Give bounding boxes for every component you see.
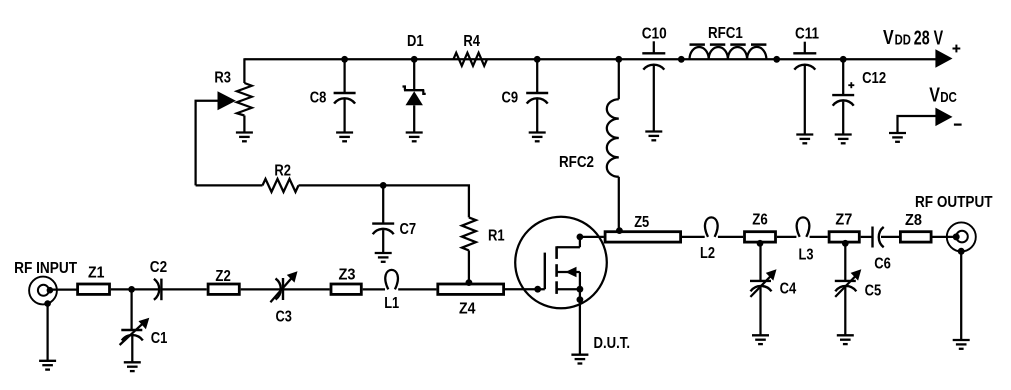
- minus sign VDC: [954, 123, 962, 125]
- ground C1: [124, 362, 141, 371]
- impedance Z5: [605, 232, 681, 242]
- capacitor C8: [334, 59, 356, 132]
- wire Z7 to C6: [861, 236, 873, 238]
- capacitor C10 (feedthrough): [642, 41, 665, 131]
- capacitor C7: [372, 185, 394, 253]
- svg-text:C7: C7: [400, 221, 417, 238]
- transistor D.U.T. MOSFET: [515, 217, 607, 355]
- ground VDC: [889, 133, 906, 142]
- svg-text:C3: C3: [276, 308, 292, 325]
- VDC supply arrow: [935, 108, 952, 127]
- ground C4: [752, 335, 769, 344]
- resistor R1: [462, 217, 476, 282]
- wire C3 to Z3: [283, 288, 330, 290]
- wire R2 to R1 corner: [299, 185, 469, 217]
- node C7 junction: [380, 182, 387, 189]
- svg-text:Z8: Z8: [905, 212, 922, 229]
- capacitor C4 (variable): [750, 243, 777, 335]
- node C9 junction: [534, 56, 541, 63]
- node R1 to Z4: [466, 279, 473, 286]
- wire L2 to Z6: [718, 236, 743, 238]
- svg-text:RF OUTPUT: RF OUTPUT: [915, 194, 993, 211]
- connector RF OUTPUT: [947, 222, 976, 340]
- svg-text:28 V: 28 V: [914, 27, 944, 49]
- svg-text:C11: C11: [795, 25, 819, 42]
- svg-text:L2: L2: [700, 245, 715, 262]
- impedance Z4: [438, 284, 504, 294]
- impedance Z8: [900, 232, 931, 242]
- svg-text:C4: C4: [780, 280, 797, 297]
- inductor RFC1: [690, 45, 767, 60]
- capacitor C2: [154, 279, 162, 301]
- inductor L2: [705, 217, 718, 237]
- node C12 junction: [840, 56, 847, 63]
- diode D1 (zener): [403, 59, 426, 132]
- svg-text:V: V: [883, 27, 894, 49]
- node C1 junction: [128, 286, 135, 293]
- VDD supply arrow: [935, 49, 952, 67]
- svg-text:R1: R1: [488, 227, 505, 244]
- ground C11: [796, 135, 813, 144]
- inductor L3: [797, 217, 810, 237]
- ground RF OUTPUT: [953, 340, 970, 349]
- node RFC2 junction: [615, 56, 622, 63]
- wire C6 to Z8: [881, 236, 899, 238]
- svg-text:Z7: Z7: [835, 211, 852, 228]
- svg-text:RFC2: RFC2: [559, 154, 594, 171]
- ground C7: [375, 253, 392, 262]
- svg-text:RFC1: RFC1: [708, 25, 743, 42]
- resistor R2: [263, 179, 299, 192]
- wire R3 wiper arm: [196, 101, 219, 186]
- capacitor C6: [873, 227, 884, 248]
- svg-text:C9: C9: [502, 90, 519, 107]
- svg-text:C5: C5: [865, 282, 882, 299]
- capacitor C11 (feedthrough): [793, 42, 816, 135]
- resistor R3 (variable): [218, 83, 252, 133]
- svg-text:DC: DC: [940, 89, 957, 106]
- label VDC: [929, 85, 957, 107]
- svg-text:R4: R4: [463, 33, 480, 50]
- svg-text:R3: R3: [214, 69, 231, 86]
- svg-text:Z3: Z3: [339, 266, 356, 283]
- svg-text:Z5: Z5: [634, 214, 649, 231]
- svg-text:C10: C10: [642, 25, 667, 42]
- svg-text:Z4: Z4: [459, 300, 475, 317]
- node C4 junction: [757, 240, 764, 247]
- wire Z5 to L2: [682, 236, 705, 238]
- wire connector to Z1: [50, 288, 77, 290]
- impedance Z1: [78, 284, 110, 294]
- svg-text:L1: L1: [384, 295, 399, 312]
- plus sign VDD: [953, 45, 961, 53]
- ground C10: [645, 132, 662, 141]
- node C8 junction: [341, 56, 348, 63]
- capacitor C9: [526, 59, 548, 132]
- node gate junction: [534, 286, 541, 293]
- capacitor C3 (variable): [270, 271, 297, 302]
- wire drain to Z5: [580, 236, 604, 238]
- ground C5: [837, 335, 854, 344]
- svg-text:C12: C12: [862, 70, 886, 87]
- svg-text:Z6: Z6: [752, 211, 768, 228]
- svg-text:DD: DD: [895, 32, 911, 49]
- ground R3: [236, 133, 253, 142]
- svg-text:L3: L3: [799, 247, 814, 264]
- capacitor C12 (polarized): [832, 59, 854, 134]
- wire L3 to Z7: [810, 236, 828, 238]
- wire top supply rail: [244, 58, 936, 60]
- capacitor C5 (variable): [835, 243, 862, 335]
- ground C9: [529, 133, 546, 142]
- connector RF INPUT: [29, 277, 57, 361]
- svg-text:C8: C8: [310, 89, 327, 106]
- wire Z6 to L3: [777, 236, 797, 238]
- wire R2 row: [196, 184, 263, 186]
- ground C8: [336, 133, 353, 142]
- wire Z3 to L1: [363, 288, 385, 290]
- svg-text:C1: C1: [151, 330, 168, 347]
- node C5 junction: [842, 240, 849, 247]
- capacitor C1 (variable): [120, 289, 150, 362]
- ground RF INPUT: [39, 361, 56, 370]
- svg-text:C2: C2: [150, 259, 167, 276]
- svg-text:V: V: [929, 85, 940, 107]
- ground D.U.T.: [571, 355, 588, 364]
- ground C12: [835, 135, 852, 144]
- node RFC2 to Z5: [616, 227, 623, 234]
- wire Z2 to C3: [241, 288, 281, 290]
- inductor RFC2: [607, 59, 619, 230]
- node RFC1 left: [678, 56, 685, 63]
- ground D1: [406, 133, 423, 142]
- wire Z4 to gate: [505, 288, 545, 290]
- impedance Z7: [829, 232, 859, 242]
- wire L1 to Z4: [398, 288, 436, 290]
- resistor R4: [453, 53, 487, 66]
- impedance Z6: [745, 232, 776, 242]
- node D1 junction: [411, 56, 418, 63]
- impedance Z3: [331, 284, 361, 294]
- wire C2 to Z2: [161, 288, 206, 290]
- svg-text:C6: C6: [874, 256, 891, 273]
- svg-text:D1: D1: [407, 33, 424, 50]
- wire Z1 to C2: [111, 288, 159, 290]
- label VDD 28 V: [883, 27, 944, 49]
- inductor L1: [385, 270, 398, 290]
- wire Z8 to connector: [933, 236, 957, 238]
- svg-text:RF INPUT: RF INPUT: [14, 260, 77, 277]
- svg-text:D.U.T.: D.U.T.: [594, 335, 631, 352]
- svg-text:R2: R2: [274, 163, 291, 180]
- svg-text:Z1: Z1: [88, 264, 104, 281]
- wire VDC: [898, 116, 936, 133]
- wire rail left end down to R3: [243, 58, 245, 83]
- node RFC1 right: [773, 56, 780, 63]
- svg-text:Z2: Z2: [215, 268, 230, 285]
- impedance Z2: [208, 284, 239, 294]
